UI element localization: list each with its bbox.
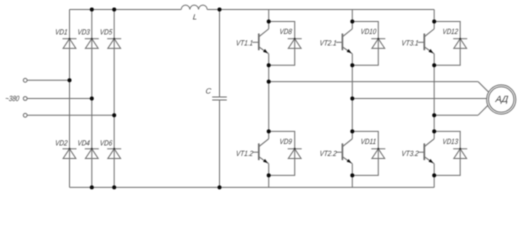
- svg-text:VD1: VD1: [55, 28, 68, 37]
- svg-text:VD9: VD9: [279, 137, 293, 146]
- svg-text:VD4: VD4: [77, 139, 90, 148]
- svg-text:VD13: VD13: [442, 137, 459, 146]
- svg-text:~380: ~380: [5, 94, 21, 103]
- svg-text:C: C: [205, 87, 212, 96]
- svg-text:VD11: VD11: [360, 137, 376, 146]
- svg-text:VD3: VD3: [77, 28, 91, 37]
- svg-text:VD5: VD5: [99, 28, 113, 37]
- svg-text:VT2.1: VT2.1: [319, 39, 337, 48]
- svg-text:VD2: VD2: [55, 139, 69, 148]
- svg-text:VD10: VD10: [360, 27, 377, 36]
- svg-text:VD8: VD8: [279, 27, 293, 36]
- svg-text:VT3.2: VT3.2: [401, 149, 420, 158]
- svg-text:VD6: VD6: [99, 139, 113, 148]
- svg-text:VD12: VD12: [442, 27, 459, 36]
- svg-text:L: L: [192, 12, 197, 21]
- svg-text:АД: АД: [494, 94, 509, 104]
- svg-text:VT2.2: VT2.2: [319, 149, 338, 158]
- svg-text:VT3.1: VT3.1: [401, 39, 419, 48]
- svg-text:VT1.1: VT1.1: [236, 39, 254, 48]
- svg-text:VT1.2: VT1.2: [236, 149, 255, 158]
